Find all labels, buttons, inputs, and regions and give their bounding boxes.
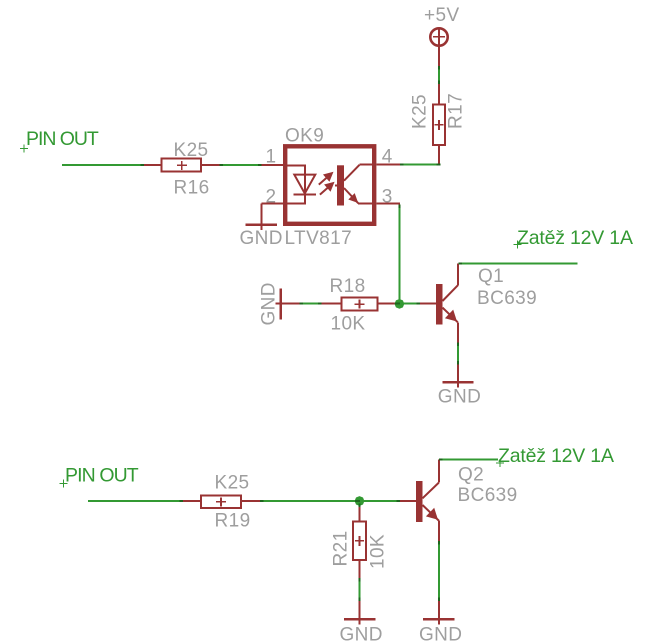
svg-text:K25: K25: [410, 94, 431, 129]
svg-text:R19: R19: [215, 511, 251, 532]
svg-text:10K: 10K: [368, 534, 389, 569]
svg-text:K25: K25: [215, 473, 250, 494]
svg-text:1: 1: [266, 146, 277, 167]
svg-text:GND: GND: [259, 282, 280, 325]
svg-text:2: 2: [266, 186, 277, 207]
svg-text:GND: GND: [240, 228, 283, 249]
svg-text:4: 4: [382, 146, 393, 167]
svg-text:GND: GND: [438, 387, 481, 408]
svg-text:3: 3: [382, 186, 393, 207]
svg-text:PIN OUT: PIN OUT: [26, 128, 99, 150]
svg-text:R18: R18: [330, 276, 366, 297]
svg-text:R17: R17: [446, 93, 467, 129]
svg-text:GND: GND: [340, 625, 383, 643]
svg-text:PIN OUT: PIN OUT: [65, 465, 139, 487]
svg-text:BC639: BC639: [458, 485, 518, 506]
svg-text:Zatěž 12V 1A: Zatěž 12V 1A: [498, 445, 614, 467]
svg-text:K25: K25: [174, 140, 209, 161]
svg-text:GND: GND: [419, 625, 462, 643]
svg-text:LTV817: LTV817: [285, 228, 353, 249]
svg-text:10K: 10K: [331, 314, 366, 335]
svg-text:BC639: BC639: [477, 288, 537, 309]
svg-text:R16: R16: [174, 177, 210, 198]
svg-text:Q2: Q2: [458, 465, 484, 486]
svg-text:Zatěž 12V 1A: Zatěž 12V 1A: [517, 227, 633, 249]
svg-text:OK9: OK9: [285, 126, 324, 147]
svg-text:Q1: Q1: [478, 266, 504, 287]
svg-text:R21: R21: [331, 530, 352, 566]
svg-text:+5V: +5V: [424, 5, 460, 26]
